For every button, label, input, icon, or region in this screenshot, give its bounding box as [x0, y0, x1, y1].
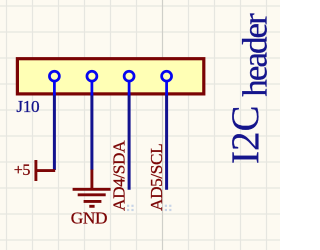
- power port +5: [36, 160, 55, 181]
- designator J10: [16, 97, 39, 116]
- no-ERC marker B: [165, 205, 172, 211]
- ground label GND: [71, 209, 107, 228]
- wire net AD5/SCL: [165, 94, 168, 190]
- svg-text:header: header: [235, 13, 274, 97]
- wire net AD4/SDA: [128, 94, 131, 190]
- pin 1: [49, 71, 59, 95]
- net label AD4/SDA: [110, 140, 129, 211]
- svg-text:I2C: I2C: [224, 106, 267, 165]
- net label AD5/SCL: [147, 144, 166, 211]
- ground symbol: [73, 170, 111, 207]
- svg-text:+5: +5: [14, 162, 31, 179]
- svg-text:J10: J10: [16, 97, 39, 116]
- svg-text:AD4/SDA: AD4/SDA: [110, 140, 129, 211]
- no-ERC marker A: [127, 205, 134, 211]
- svg-text:AD5/SCL: AD5/SCL: [147, 144, 166, 211]
- pin 3: [124, 71, 134, 95]
- text I2C header: [224, 13, 274, 164]
- power port label +5: [14, 162, 31, 179]
- wire net +5: [53, 94, 56, 170]
- wire net GND: [90, 94, 93, 170]
- pin 4: [162, 71, 172, 95]
- connector J10 body: [17, 59, 203, 94]
- svg-text:GND: GND: [71, 209, 107, 228]
- pin 2: [87, 71, 97, 95]
